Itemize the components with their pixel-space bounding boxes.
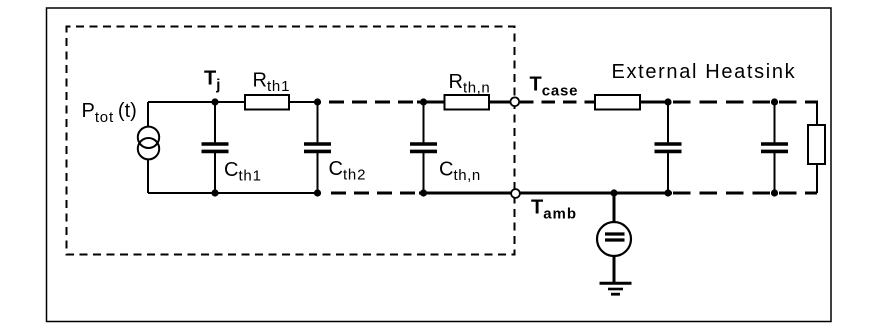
svg-text:External Heatsink: External Heatsink <box>612 61 797 83</box>
